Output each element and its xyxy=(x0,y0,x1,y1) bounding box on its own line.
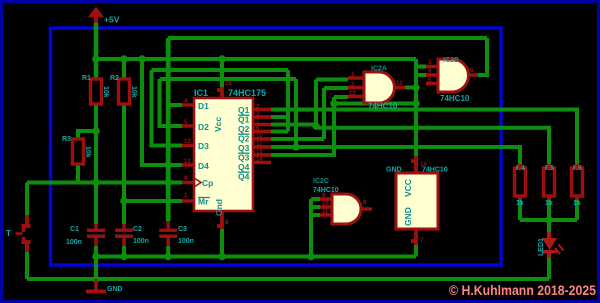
switch S1 xyxy=(6,215,31,252)
wire switch bottom lead xyxy=(25,252,29,279)
node D4 row clock xyxy=(164,161,172,169)
wire Q1 row to right resistor R6 xyxy=(271,110,577,167)
+5V supply symbol xyxy=(90,8,120,25)
svg-text:Gnd: Gnd xyxy=(214,199,224,216)
and-gate IC2A 74HC10 xyxy=(348,66,405,111)
pin D3 xyxy=(182,144,194,147)
svg-text:10k: 10k xyxy=(84,146,91,158)
wire IC2C input stubs xyxy=(311,199,320,215)
node gateA out x416 xyxy=(412,84,420,92)
svg-text:C3: C3 xyxy=(178,226,187,233)
svg-text:14: 14 xyxy=(420,162,427,168)
svg-text:1k: 1k xyxy=(545,200,553,207)
resistor R4 right xyxy=(515,165,526,207)
svg-text:10: 10 xyxy=(322,201,329,207)
wire switch row to Cp xyxy=(27,181,182,185)
svg-text:13: 13 xyxy=(184,159,191,165)
power unit IC2P xyxy=(386,156,448,245)
svg-text:13: 13 xyxy=(349,91,356,97)
resistor R1 xyxy=(82,75,109,104)
svg-text:Q1: Q1 xyxy=(238,105,250,115)
svg-text:16: 16 xyxy=(225,81,232,87)
wire Q1b row to right resistor R5 xyxy=(271,117,549,166)
node riser x335 Q2b xyxy=(330,100,338,108)
svg-text:1k: 1k xyxy=(573,200,581,207)
svg-text:R1: R1 xyxy=(82,75,91,82)
pin D4 xyxy=(182,163,194,166)
node gnd rail IC1 xyxy=(218,253,226,261)
inner labels xyxy=(198,101,250,216)
node gnd rail C3 xyxy=(164,253,172,261)
svg-text:1k: 1k xyxy=(516,200,524,207)
svg-text:Q4: Q4 xyxy=(238,162,250,172)
wire row y79 from x161.5 to riser x296 xyxy=(160,77,297,81)
node R3 top on R1 line xyxy=(92,127,100,135)
diode LED1 xyxy=(538,232,564,258)
svg-text:IC2B: IC2B xyxy=(443,57,459,64)
pin Vcc top xyxy=(217,87,222,98)
svg-text:C2: C2 xyxy=(133,226,142,233)
svg-text:12: 12 xyxy=(184,139,191,145)
svg-text:14: 14 xyxy=(256,157,263,163)
svg-text:Q3: Q3 xyxy=(238,153,250,163)
svg-text:Cp: Cp xyxy=(202,178,213,188)
node right res rail xyxy=(545,216,553,224)
node x416 row103 xyxy=(412,100,420,108)
node Cp row clock xyxy=(164,179,172,187)
wire D1 stub from clock vertical xyxy=(168,103,182,107)
svg-text:IC1: IC1 xyxy=(194,88,208,98)
svg-text:D1: D1 xyxy=(198,101,209,111)
wire ground rail y256 xyxy=(96,255,416,259)
wire R1 bottom line to C1 xyxy=(94,104,98,224)
wire C1 bottom xyxy=(94,246,98,257)
wire clock rail y38 xyxy=(168,36,487,40)
svg-text:12: 12 xyxy=(396,81,403,87)
svg-text:LED1: LED1 xyxy=(538,238,545,256)
svg-text:74HC10: 74HC10 xyxy=(368,102,398,111)
wire R2 bottom line to C2 xyxy=(122,104,126,224)
svg-text:D2: D2 xyxy=(198,122,209,132)
svg-text:GND: GND xyxy=(386,167,402,174)
svg-text:Q2: Q2 xyxy=(238,134,250,144)
pin Q3b xyxy=(253,145,271,148)
pin numbers left xyxy=(184,81,263,226)
svg-text:Q4: Q4 xyxy=(238,172,250,182)
wire Q2b row to right resistor R4 xyxy=(271,147,520,166)
wire riser x334 down to Q3 row xyxy=(271,97,334,155)
node D4 feed xyxy=(138,55,146,63)
wire riser x161.5 and D2 row xyxy=(160,79,183,126)
and-gate IC2C 74HC10 xyxy=(313,178,372,224)
node gnd rail C2 xyxy=(120,253,128,261)
svg-text:74HC10: 74HC10 xyxy=(313,187,339,194)
node +5V/R1 xyxy=(92,55,100,63)
wire C2 bottom xyxy=(122,246,126,257)
inner schematic frame xyxy=(51,28,502,265)
wire +5V vertical xyxy=(94,22,99,79)
pin Q2b xyxy=(253,130,271,133)
pin Q4b xyxy=(253,161,271,164)
wire Q2 row xyxy=(271,137,324,141)
node Mr row xyxy=(120,197,128,205)
ground symbol GND xyxy=(86,279,123,294)
svg-text:D4: D4 xyxy=(198,161,209,171)
node gnd rail C1 xyxy=(92,253,100,261)
wire Vcc drop xyxy=(220,59,224,87)
svg-text:100n: 100n xyxy=(133,238,149,245)
pin Mr xyxy=(182,199,194,202)
svg-text:11: 11 xyxy=(322,209,329,215)
wire IC2C input bus xyxy=(309,199,313,257)
wire LED top drop xyxy=(547,220,551,232)
wire riser x288 xyxy=(286,70,290,132)
svg-text:VCC: VCC xyxy=(403,179,413,197)
wire power rect gnd drop xyxy=(414,244,418,257)
wire D4 feed vertical x142 xyxy=(142,59,182,165)
and-gate IC2B 74HC10 xyxy=(426,57,478,103)
wire gate B output riser xyxy=(478,38,487,75)
svg-text:100n: 100n xyxy=(178,238,194,245)
wire switch top lead xyxy=(25,183,29,216)
wire LED bottom to rail xyxy=(547,258,551,279)
wire Mr row xyxy=(124,199,182,203)
svg-text:74HC175: 74HC175 xyxy=(228,88,266,98)
resistor R5 right xyxy=(544,165,555,207)
wire GND symbol drop xyxy=(94,257,98,283)
svg-text:R3: R3 xyxy=(62,136,71,143)
wire R3 bottom lead xyxy=(76,164,80,183)
resistor stubs right xyxy=(520,164,577,200)
pin Cp xyxy=(182,181,194,184)
resistor R6 right xyxy=(572,165,583,207)
pin D1 xyxy=(182,103,194,106)
pin Q4 xyxy=(253,153,271,156)
wire riser x316 down to Q-row xyxy=(314,80,318,128)
pin Q2 xyxy=(253,123,271,126)
svg-text:11: 11 xyxy=(256,142,263,148)
node riser x288 Q1 xyxy=(292,143,300,151)
svg-text:D3: D3 xyxy=(198,141,209,151)
capacitor C1 xyxy=(66,224,105,246)
pin Q1 xyxy=(253,108,271,111)
wire C3 bottom xyxy=(166,246,170,257)
capacitor C3 xyxy=(159,221,194,246)
svg-text:100n: 100n xyxy=(66,239,82,246)
svg-text:IC2C: IC2C xyxy=(313,178,329,185)
svg-text:Vcc: Vcc xyxy=(213,117,223,132)
node bottom rail gnd sym xyxy=(92,275,100,283)
svg-text:74HC10: 74HC10 xyxy=(440,94,470,103)
wire riser x151.5 and D3 row xyxy=(152,70,183,146)
resistor R2 xyxy=(110,75,137,104)
node Vcc drop xyxy=(218,55,226,63)
wire riser x296 xyxy=(294,79,298,147)
node R2 top xyxy=(120,55,128,63)
svg-text:Q3: Q3 xyxy=(238,143,250,153)
svg-text:+5V: +5V xyxy=(104,15,120,25)
capacitor C2 xyxy=(115,224,149,246)
wire gate B input stubs from x416 xyxy=(416,67,426,76)
wire row y70 from x151.5 to riser x288 xyxy=(152,68,289,72)
wire R3 top lead and row xyxy=(78,131,96,139)
node switch row R1 line xyxy=(92,179,100,187)
svg-text:10k: 10k xyxy=(102,86,109,98)
svg-text:IC2A: IC2A xyxy=(371,66,387,73)
wire right resistor bottoms rail xyxy=(520,198,577,220)
wire gate B output link xyxy=(478,73,487,77)
wire clock vertical x169 xyxy=(166,38,171,221)
op IC1 74HC175 body xyxy=(182,81,271,229)
svg-text:© H.Kuhlmann 2018-2025: © H.Kuhlmann 2018-2025 xyxy=(449,283,596,298)
pin Gnd bottom xyxy=(217,211,222,229)
svg-text:Q1: Q1 xyxy=(238,115,250,125)
wire gate A output link xyxy=(405,86,416,90)
wire R2 top stub xyxy=(122,59,126,79)
pin D2 xyxy=(182,124,194,127)
wire row y79.5 riser x316 to gate A in1 xyxy=(316,78,348,82)
pin Q3 xyxy=(253,137,271,140)
wire bottom rail y279 xyxy=(27,277,549,281)
wire row y88 riser x324 to gate A in2 xyxy=(324,86,348,90)
wire gate A in3 row and row y103.5 xyxy=(334,97,416,104)
svg-text:GND: GND xyxy=(107,286,123,293)
wire power rect vcc feed x416 xyxy=(414,59,418,157)
wire riser x324 down to Q2 row xyxy=(322,88,326,139)
node riser x296 row79 xyxy=(312,122,320,130)
svg-text:GND: GND xyxy=(403,207,413,226)
svg-text:10: 10 xyxy=(256,134,263,140)
svg-text:Q2: Q2 xyxy=(238,124,250,134)
resistor R3 xyxy=(62,136,91,164)
svg-text:15: 15 xyxy=(256,150,263,156)
node gnd rail IC2C xyxy=(307,253,315,261)
wire +5V row y59 xyxy=(96,57,416,61)
svg-text:C1: C1 xyxy=(70,226,79,233)
svg-text:T: T xyxy=(6,229,11,238)
pin Q1b xyxy=(253,115,271,118)
svg-text:R2: R2 xyxy=(110,75,119,82)
svg-text:10k: 10k xyxy=(130,86,137,98)
wire IC1 gnd drop xyxy=(220,229,224,257)
